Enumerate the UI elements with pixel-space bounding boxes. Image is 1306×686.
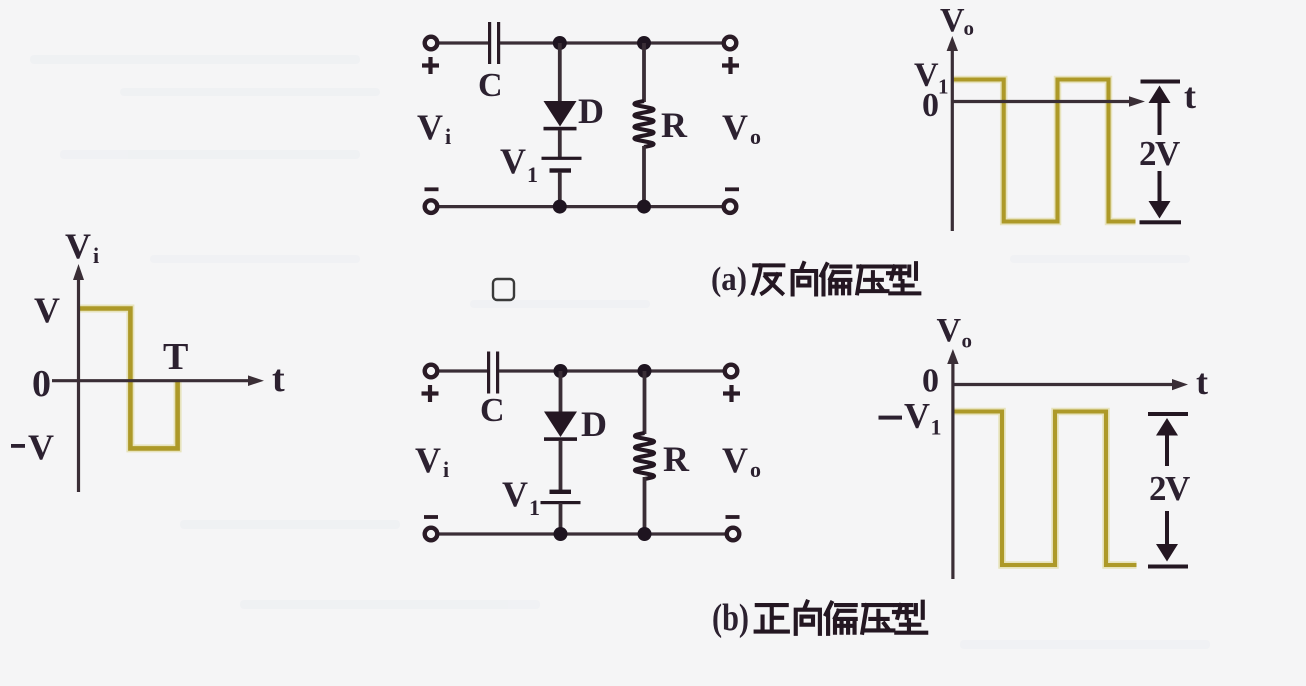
resistor R zigzag (b)	[635, 433, 654, 479]
node junction top-resistor	[637, 36, 651, 50]
svg-text:t: t	[272, 358, 285, 400]
vertical axis Vi	[73, 264, 84, 492]
resistor R wire from top node	[642, 43, 646, 102]
svg-text:2V: 2V	[1139, 134, 1180, 173]
caption (a) CJK char ya	[857, 266, 887, 293]
dimension 2V (b)	[1148, 412, 1190, 569]
svg-text:V: V	[28, 427, 54, 467]
svg-text:V: V	[722, 440, 748, 480]
terminal output top	[724, 37, 737, 50]
dimension 2V (a)	[1139, 80, 1181, 225]
caption (b) CJK char xing	[894, 602, 926, 633]
svg-text:1: 1	[529, 495, 540, 520]
battery V1 (b): short - plate top, long + plate bottom	[541, 490, 581, 505]
resistor R wire from top node (b)	[643, 371, 647, 434]
terminal input top (b)	[425, 365, 438, 378]
node junction top-diode	[553, 36, 567, 50]
svg-text:i: i	[445, 124, 451, 149]
polarity - left (a)	[425, 187, 439, 191]
svg-text:o: o	[750, 457, 761, 482]
capacitor C	[488, 22, 500, 64]
battery V1 (a): long + plate top, short - plate bottom	[542, 157, 582, 173]
svg-text:2V: 2V	[1149, 469, 1190, 508]
svg-text:D: D	[578, 91, 604, 131]
label Vi (b)	[415, 440, 449, 482]
svg-text:1: 1	[931, 415, 942, 440]
caption (a) CJK char fan	[753, 265, 783, 293]
diode D wire from top node (b)	[559, 371, 563, 412]
svg-text:V: V	[500, 141, 526, 181]
label Vo (b)	[722, 440, 761, 482]
terminal input bottom (a)	[425, 200, 438, 213]
wire: top middle/right segment	[500, 41, 724, 44]
svg-text:0: 0	[922, 87, 939, 124]
svg-text:0: 0	[922, 363, 939, 400]
axis label Vo (b)	[937, 312, 973, 353]
node junction bottom-resistor (b)	[638, 527, 652, 541]
wire diode to battery (b)	[559, 440, 563, 491]
polarity - right (b)	[726, 515, 740, 519]
wire: top left segment	[437, 41, 488, 44]
svg-text:t: t	[1184, 76, 1196, 116]
svg-text:o: o	[750, 124, 761, 149]
caption (a) CJK char xing	[888, 263, 919, 293]
node junction bottom-resistor (a)	[637, 200, 651, 214]
node junction top-diode (b)	[554, 364, 568, 378]
wire battery to bottom (b)	[559, 503, 563, 534]
node junction bottom-diode (a)	[553, 200, 567, 214]
svg-text:V: V	[65, 226, 91, 266]
polarity + left (b)	[422, 385, 439, 402]
capacitor C (b)	[487, 352, 499, 394]
horizontal axis t (a)	[952, 96, 1145, 106]
terminal input top	[425, 37, 438, 50]
caption (a) CJK char pian	[821, 264, 850, 294]
svg-text:V: V	[417, 107, 443, 147]
terminal output bottom (b)	[727, 528, 740, 541]
node junction top-resistor (b)	[638, 364, 652, 378]
svg-text:C: C	[480, 392, 505, 429]
svg-text:R: R	[661, 105, 688, 145]
svg-text:1: 1	[527, 162, 538, 187]
node junction bottom-diode (b)	[554, 527, 568, 541]
input waveform Vi (olive square wave)	[79, 309, 178, 449]
svg-text:1: 1	[938, 75, 949, 99]
wire: top left segment (b)	[437, 369, 487, 372]
polarity + left	[422, 57, 439, 74]
terminal output top (b)	[725, 365, 738, 378]
wire diode to battery	[558, 130, 562, 157]
svg-text:V: V	[502, 474, 528, 514]
resistor R zigzag	[635, 101, 654, 147]
caption (b) CJK char xiang	[796, 602, 820, 634]
label -V	[11, 427, 54, 467]
wire resistor to bottom	[642, 146, 646, 207]
wire resistor to bottom (b)	[643, 477, 647, 534]
diode D triangle + bar (b)	[544, 412, 577, 441]
polarity + right	[722, 57, 739, 74]
label V1 level (a)	[914, 57, 949, 99]
svg-text:V: V	[937, 312, 962, 349]
stray small square glyph	[493, 279, 514, 300]
svg-text:V: V	[415, 440, 441, 480]
diode D wire from top node	[558, 43, 562, 102]
output waveform (b) olive	[953, 412, 1137, 566]
label V1 (b)	[502, 474, 540, 520]
svg-text:o: o	[962, 329, 973, 353]
polarity - left (b)	[424, 515, 438, 519]
polarity - right (a)	[725, 187, 739, 191]
diode D triangle + bar	[544, 101, 577, 130]
axis label Vo (a)	[940, 2, 974, 40]
vertical axis Vo (a)	[947, 36, 958, 231]
horizontal axis t	[52, 375, 264, 386]
label -V1 level (b)	[879, 396, 942, 440]
terminal input bottom (b)	[425, 528, 438, 541]
svg-text:(a): (a)	[711, 261, 747, 298]
svg-text:i: i	[443, 457, 449, 482]
svg-text:C: C	[478, 67, 503, 104]
label Vo (a)	[722, 107, 761, 149]
svg-text:i: i	[93, 243, 99, 268]
caption (b) CJK char zheng	[756, 605, 788, 631]
wire: top middle/right segment (b)	[499, 369, 725, 372]
label V1 (a)	[500, 141, 538, 187]
caption (b) CJK char pian	[826, 603, 856, 634]
terminal output bottom (a)	[724, 200, 737, 213]
svg-text:V: V	[904, 396, 930, 436]
svg-text:V: V	[722, 107, 748, 147]
svg-text:T: T	[163, 336, 188, 378]
vertical axis Vo (b)	[947, 349, 958, 579]
horizontal axis t (b)	[953, 379, 1188, 390]
axis label Vi	[65, 226, 99, 268]
output waveform (a) olive	[953, 80, 1136, 222]
polarity + right (b)	[723, 385, 740, 402]
svg-text:(b): (b)	[712, 597, 749, 639]
svg-text:D: D	[581, 404, 607, 444]
svg-text:V: V	[940, 2, 965, 39]
svg-text:t: t	[1196, 362, 1208, 402]
label Vi (a)	[417, 107, 451, 149]
wire bottom (b)	[437, 532, 725, 535]
wire bottom (a)	[437, 205, 724, 208]
svg-text:V: V	[34, 290, 60, 330]
svg-text:o: o	[964, 16, 975, 40]
svg-text:R: R	[663, 439, 690, 479]
faint scan streaks	[30, 55, 1210, 649]
wire battery to bottom	[558, 172, 562, 207]
svg-text:0: 0	[32, 363, 51, 405]
caption (a) CJK char xiang	[793, 263, 817, 294]
caption (b) CJK char ya	[862, 605, 893, 633]
